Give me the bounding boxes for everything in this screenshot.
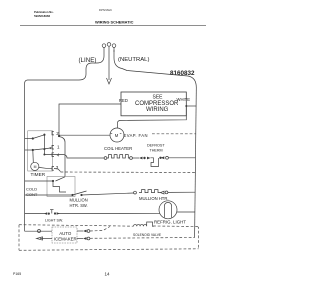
wire timer motor to neutral dashed	[54, 169, 61, 172]
timer terminal 3	[52, 167, 54, 171]
svg-text:HTR. SW.: HTR. SW.	[70, 203, 88, 208]
svg-text:MULLION: MULLION	[70, 198, 88, 203]
svg-text:COIL HEATER: COIL HEATER	[104, 146, 132, 151]
wire motor to terminal 3	[39, 166, 52, 169]
timer switch arm to contact 2	[33, 135, 44, 139]
svg-text:EVAP. FAN: EVAP. FAN	[124, 133, 148, 138]
svg-text:WIRING: WIRING	[146, 107, 169, 113]
wire bus to cold control	[25, 180, 53, 182]
svg-text:ICEMAKER: ICEMAKER	[54, 237, 77, 242]
svg-text:WHITE: WHITE	[177, 97, 191, 102]
right bus dashed lower	[198, 227, 199, 249]
mullion heater	[134, 191, 137, 194]
wire run feed down to cold control	[59, 137, 65, 177]
svg-text:8160832: 8160832	[170, 70, 195, 77]
svg-text:FRT21NL6: FRT21NL6	[99, 8, 112, 12]
wire evap fan feed	[59, 134, 110, 136]
svg-text:LIGHT SW.: LIGHT SW.	[45, 219, 63, 223]
wire mullion line	[25, 194, 73, 196]
icemaker top right lead	[77, 230, 83, 232]
svg-text:M: M	[115, 133, 119, 138]
svg-text:MULLION HTR.: MULLION HTR.	[139, 196, 169, 201]
wire terminal 4 to defrost heater	[45, 155, 105, 159]
svg-text:THERM: THERM	[150, 148, 163, 152]
bottom dashed row	[19, 249, 199, 251]
svg-text:WIRING SCHEMATIC: WIRING SCHEMATIC	[95, 19, 134, 24]
connector right of therm	[159, 157, 161, 159]
solenoid valve	[134, 222, 154, 226]
defrost timer box	[28, 131, 53, 171]
wire neutral-side cord to right bus	[114, 50, 196, 88]
compressor box U1	[121, 92, 186, 116]
cold control box	[47, 177, 75, 197]
wire lamp to bus	[177, 211, 195, 213]
light switch	[44, 212, 47, 215]
svg-text:AUTO: AUTO	[59, 231, 72, 236]
timer terminal 4	[52, 153, 54, 157]
right bus wire	[195, 88, 197, 238]
svg-text:SOLENOID VALVE: SOLENOID VALVE	[133, 233, 162, 237]
svg-text:REFRIG. LIGHT: REFRIG. LIGHT	[154, 219, 186, 224]
timer arm to terminal 1	[33, 148, 51, 150]
dashed accessory boundary left edge	[18, 225, 20, 251]
refrigerator light lamp	[159, 201, 177, 219]
svg-text:TIMER: TIMER	[31, 172, 46, 177]
svg-text:M: M	[34, 165, 37, 169]
wire fan to right bus	[118, 106, 187, 128]
icemaker bottom right lead	[77, 238, 83, 240]
icemaker top left lead	[25, 230, 52, 232]
coil heater	[107, 155, 130, 158]
icemaker bottom left lead with arrow	[40, 238, 52, 240]
svg-text:CONT: CONT	[26, 192, 38, 197]
timer terminal 1	[52, 145, 54, 149]
svg-text:14: 14	[105, 272, 111, 277]
solenoid feed dashed row	[19, 225, 134, 227]
wire red compressor feed	[59, 104, 121, 137]
wire and connector to defrost therm	[133, 157, 140, 159]
evap fan motor	[110, 128, 124, 142]
left bus wire	[24, 84, 26, 232]
wire coil heater line	[104, 157, 107, 160]
header rule	[20, 24, 206, 26]
ground prong arrow	[107, 78, 112, 84]
svg-text:5995218966: 5995218966	[34, 14, 50, 18]
wire line-side cord to left bus	[25, 56, 104, 84]
svg-text:COLD: COLD	[26, 187, 37, 192]
dashed evap fan aux line	[152, 133, 196, 135]
mullion heater switch	[71, 194, 73, 196]
wire therm to bus	[169, 157, 196, 159]
wire white compressor to bus	[186, 105, 196, 107]
auto icemaker box	[52, 227, 77, 243]
wire light line	[25, 213, 47, 215]
timer terminal 2	[52, 131, 54, 135]
timer inner contact bar	[43, 134, 45, 155]
cold control contacts	[52, 180, 54, 182]
svg-text:RED: RED	[119, 98, 128, 103]
timer motor	[32, 150, 35, 163]
svg-text:SEE: SEE	[153, 95, 164, 101]
svg-text:P165: P165	[13, 272, 21, 276]
power cord plug prongs	[102, 43, 116, 80]
defrost thermostat	[151, 158, 159, 167]
svg-text:DEFROST: DEFROST	[147, 144, 165, 148]
svg-text:(NEUTRAL): (NEUTRAL)	[118, 57, 149, 63]
